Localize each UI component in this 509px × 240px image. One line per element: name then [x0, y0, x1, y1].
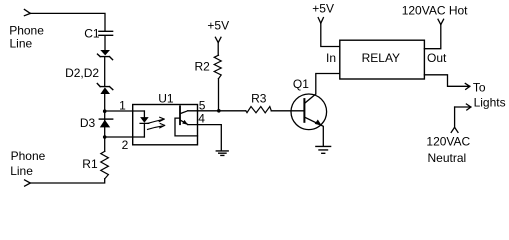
svg-text:Line: Line [10, 164, 33, 178]
svg-text:D2,D2: D2,D2 [65, 66, 99, 80]
svg-text:Out: Out [427, 51, 447, 65]
svg-text:RELAY: RELAY [362, 51, 400, 65]
svg-text:To: To [473, 81, 486, 95]
svg-text:+5V: +5V [312, 1, 334, 15]
svg-text:120VAC Hot: 120VAC Hot [402, 4, 468, 18]
svg-text:Q1: Q1 [293, 77, 309, 91]
svg-text:Phone: Phone [9, 24, 44, 38]
svg-text:4: 4 [198, 112, 205, 126]
svg-text:Neutral: Neutral [428, 151, 467, 165]
svg-text:2: 2 [122, 138, 129, 152]
svg-text:D3: D3 [80, 116, 96, 130]
svg-text:5: 5 [199, 98, 206, 112]
svg-text:U1: U1 [158, 92, 174, 106]
svg-text:R1: R1 [82, 157, 98, 171]
svg-text:1: 1 [119, 98, 126, 112]
svg-text:Lights: Lights [474, 96, 506, 110]
svg-text:120VAC: 120VAC [426, 134, 470, 148]
svg-text:In: In [326, 51, 336, 65]
svg-text:C1: C1 [84, 26, 100, 40]
svg-text:Phone: Phone [11, 149, 46, 163]
svg-text:R2: R2 [195, 60, 211, 74]
svg-text:R3: R3 [251, 91, 267, 105]
svg-text:Line: Line [10, 37, 33, 51]
svg-text:+5V: +5V [207, 18, 229, 32]
